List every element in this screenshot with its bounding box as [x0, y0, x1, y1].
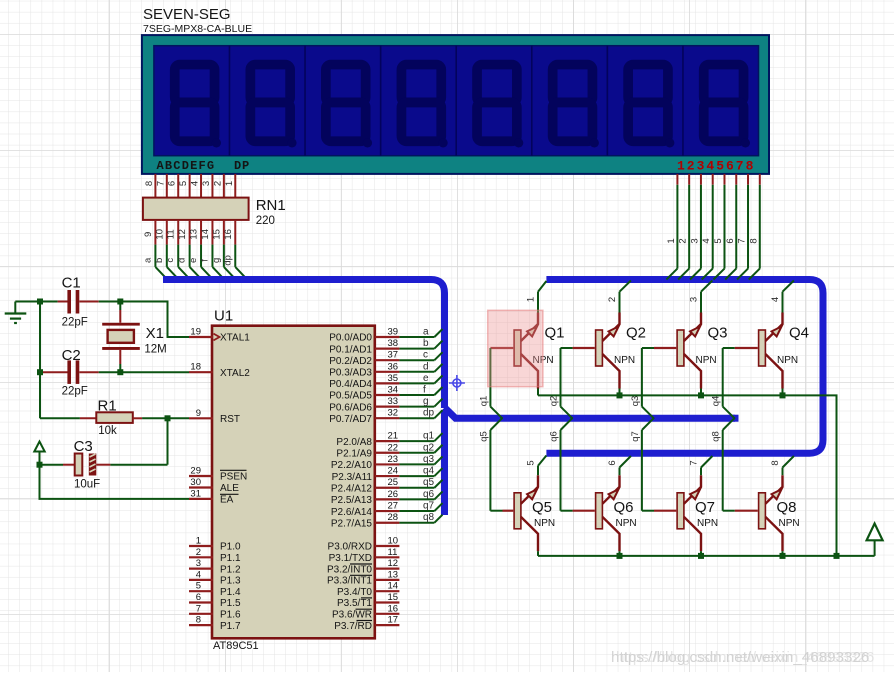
display digit pin 2 wire to digit bus — [678, 174, 690, 280]
U1 pin 31 EA — [189, 488, 234, 505]
svg-text:P1.6: P1.6 — [220, 610, 241, 621]
display cell separator 7 — [682, 46, 684, 156]
svg-text:P1.4: P1.4 — [220, 587, 241, 598]
power arrow at C3 — [34, 442, 44, 465]
svg-text:19: 19 — [190, 327, 201, 338]
display digit 8 — [704, 65, 750, 148]
U1 pin 9 RST — [189, 408, 240, 425]
svg-text:P0.7/AD7: P0.7/AD7 — [329, 414, 372, 425]
display digit pin 3 wire to digit bus — [689, 174, 701, 280]
svg-text:Q3: Q3 — [708, 325, 728, 342]
junction rail1 Q4 emitter — [780, 392, 786, 398]
RN1 pin 14 wire to segment bus — [199, 220, 223, 279]
U1 pin 14 P3.4/T0 — [337, 581, 399, 598]
svg-text:P2.6/A14: P2.6/A14 — [331, 507, 373, 518]
svg-text:9: 9 — [196, 408, 201, 419]
svg-text:P2.0/A8: P2.0/A8 — [336, 437, 372, 448]
U1 pin 25 P2.4/A12 wire to bus, net q5 — [331, 477, 443, 494]
svg-text:21: 21 — [388, 431, 399, 442]
wire C2 to XTAL2 — [99, 371, 189, 373]
svg-text:Q8: Q8 — [777, 499, 797, 516]
svg-text:2: 2 — [678, 238, 689, 243]
ground symbol — [5, 302, 27, 324]
wire q1 to Q1 base — [490, 347, 513, 349]
display digit 6 — [553, 65, 599, 148]
svg-text:37: 37 — [388, 350, 399, 361]
svg-text:12M: 12M — [144, 344, 166, 356]
display segment pin 8 — [144, 174, 156, 198]
svg-text:Q1: Q1 — [545, 325, 565, 342]
U1 pin 32 P0.7/AD7 wire to bus, net dp — [329, 408, 442, 425]
U1 pin 33 P0.6/AD6 wire to bus, net g — [329, 396, 442, 413]
ALE underline — [220, 493, 239, 495]
svg-text:P3.0/RXD: P3.0/RXD — [328, 542, 372, 553]
display digit 1 — [175, 65, 221, 148]
U1 pin 6 P1.5 — [189, 592, 241, 609]
transistor Q8 — [759, 475, 783, 551]
svg-text:SEVEN-SEG: SEVEN-SEG — [143, 6, 231, 23]
svg-text:C1: C1 — [62, 275, 81, 292]
svg-text:XTAL1: XTAL1 — [220, 333, 250, 344]
display cell separator 1 — [228, 46, 230, 156]
wire Q5 emitter to rail2 — [537, 551, 539, 556]
svg-text:NPN: NPN — [616, 518, 637, 529]
svg-text:NPN: NPN — [534, 518, 555, 529]
svg-text:29: 29 — [190, 466, 201, 477]
svg-text:P0.1/AD1: P0.1/AD1 — [329, 344, 372, 355]
svg-text:3: 3 — [689, 238, 700, 243]
U1 pin 27 P2.6/A14 wire to bus, net q7 — [331, 501, 443, 518]
svg-text:4: 4 — [701, 238, 712, 243]
svg-text:AT89C51: AT89C51 — [213, 640, 259, 652]
svg-text:36: 36 — [388, 361, 399, 372]
U1 pin 7 P1.6 — [189, 603, 241, 620]
svg-text:q3: q3 — [423, 454, 435, 465]
svg-text:DP: DP — [234, 159, 250, 173]
display cell separator 6 — [606, 46, 608, 156]
U1 pin 3 P1.2 — [189, 558, 241, 575]
svg-text:a: a — [423, 327, 429, 338]
junction rail2 Q7 emitter — [698, 553, 704, 559]
svg-text:18: 18 — [190, 362, 201, 373]
svg-text:q7: q7 — [630, 431, 641, 442]
digit select bus — [546, 280, 823, 454]
wire Q4 emitter to rail — [782, 389, 784, 396]
display digit 7 — [628, 65, 674, 148]
U1 pin 8 P1.7 — [189, 615, 241, 632]
U1 pin 26 P2.5/A13 wire to bus, net q6 — [331, 489, 443, 506]
seven segment display 7SEG-MPX8-CA-BLUE body — [142, 35, 769, 174]
U1 pin 10 P3.0/RXD — [328, 536, 400, 553]
svg-text:b: b — [423, 338, 429, 349]
svg-text:5: 5 — [526, 460, 537, 465]
U1 pin 28 P2.7/A15 wire to bus, net q8 — [331, 512, 443, 529]
svg-text:4: 4 — [196, 569, 201, 580]
svg-text:7SEG-MPX8-CA-BLUE: 7SEG-MPX8-CA-BLUE — [143, 23, 252, 35]
wire q7 from q bus down to Q7 base — [642, 418, 676, 511]
transistor Q2 — [596, 313, 620, 389]
svg-text:P0.3/AD3: P0.3/AD3 — [329, 368, 372, 379]
svg-text:q2: q2 — [549, 396, 560, 407]
svg-text:1: 1 — [224, 181, 235, 186]
svg-text:10k: 10k — [98, 425, 117, 437]
svg-text:11: 11 — [166, 229, 177, 239]
svg-text:b: b — [154, 258, 165, 263]
PSEN overline — [220, 469, 247, 471]
svg-text:1: 1 — [526, 297, 537, 302]
resistor network RN1 body — [143, 198, 249, 220]
wire Q3 collector to digit bus tap 3 — [701, 281, 712, 313]
svg-text:NPN: NPN — [779, 518, 800, 529]
svg-text:d: d — [423, 361, 429, 372]
svg-text:q2: q2 — [423, 442, 435, 453]
svg-text:4: 4 — [770, 297, 781, 302]
wire ground to C1 — [15, 301, 57, 303]
emitter rail Q5-Q8 to power — [538, 555, 875, 557]
svg-text:34: 34 — [388, 385, 399, 396]
wire q6 from q bus down to Q6 base — [561, 418, 595, 511]
svg-text:6: 6 — [607, 460, 618, 465]
U1 pin 15 P3.5/T1 — [337, 592, 399, 609]
svg-text:q7: q7 — [423, 501, 435, 512]
wire Q5 collector to digit bus tap 5 — [538, 456, 546, 476]
svg-text:7: 7 — [737, 238, 748, 243]
svg-text:P2.7/A15: P2.7/A15 — [331, 518, 373, 529]
transistor Q1 — [514, 313, 538, 389]
U1 pin 21 P2.0/A8 wire to bus, net q1 — [336, 431, 442, 448]
svg-text:15: 15 — [211, 229, 222, 240]
svg-text:NPN: NPN — [697, 518, 718, 529]
svg-text:dp: dp — [222, 255, 233, 266]
svg-text:5: 5 — [178, 181, 189, 186]
svg-text:2: 2 — [196, 547, 201, 558]
svg-text:3: 3 — [689, 297, 700, 302]
svg-text:4: 4 — [190, 181, 201, 186]
svg-text:NPN: NPN — [614, 355, 635, 366]
svg-text:10: 10 — [388, 536, 399, 547]
svg-text:13: 13 — [388, 569, 399, 580]
display segment letters ABCDEFG DP — [157, 159, 251, 173]
wire rail to R1 — [40, 417, 80, 419]
q bus end dot — [732, 415, 739, 422]
U1 pin 34 P0.5/AD5 wire to bus, net f — [329, 385, 442, 402]
svg-text:17: 17 — [388, 615, 399, 626]
U1 pin 1 P1.0 — [189, 536, 241, 553]
svg-text:9: 9 — [143, 232, 154, 237]
wire Q2 collector to digit bus tap 2 — [620, 281, 631, 313]
svg-text:22pF: 22pF — [62, 386, 88, 398]
U1 pin 24 P2.3/A11 wire to bus, net q4 — [332, 466, 443, 483]
svg-text:EA: EA — [220, 495, 234, 506]
svg-text:P1.7: P1.7 — [220, 621, 241, 632]
RN1 pin 13 wire to segment bus — [188, 220, 212, 279]
junction C3 left — [37, 462, 43, 468]
transistor Q3 — [677, 313, 701, 389]
svg-text:PSEN: PSEN — [220, 472, 247, 483]
junction X1 bottom — [117, 369, 123, 375]
svg-text:25: 25 — [388, 477, 399, 488]
svg-text:27: 27 — [388, 501, 399, 512]
wire q2 to Q2 base — [561, 347, 595, 349]
svg-text:5: 5 — [196, 581, 201, 592]
svg-text:5: 5 — [713, 238, 724, 243]
junction rail1-rail2 — [834, 553, 840, 559]
wire Q8 collector to digit bus tap 8 — [783, 456, 794, 475]
display digit 3 — [326, 65, 372, 148]
svg-text:NPN: NPN — [777, 355, 798, 366]
U1 pin 19 XTAL1 — [189, 327, 250, 344]
svg-text:P1.0: P1.0 — [220, 542, 241, 553]
svg-text:P3.5/T1: P3.5/T1 — [337, 598, 372, 609]
svg-text:R1: R1 — [98, 398, 117, 415]
display digit pin 8 wire to digit bus — [748, 174, 760, 280]
svg-text:38: 38 — [388, 338, 399, 349]
display digit pin 7 wire to digit bus — [737, 174, 749, 280]
svg-text:Q2: Q2 — [626, 325, 646, 342]
svg-text:ALE: ALE — [220, 483, 239, 494]
wire q4 to Q4 base — [723, 347, 758, 349]
svg-text:q4: q4 — [711, 396, 722, 407]
wire Q3 emitter to rail — [700, 389, 702, 396]
svg-text:XTAL2: XTAL2 — [220, 368, 250, 379]
svg-text:39: 39 — [388, 327, 399, 338]
svg-text:q5: q5 — [478, 431, 489, 442]
XTAL1 pin clock arrow — [214, 334, 220, 341]
U1 pin 18 XTAL2 — [189, 362, 250, 379]
svg-text:14: 14 — [388, 581, 399, 592]
svg-text:1: 1 — [666, 238, 677, 243]
wire q3 to Q3 base — [642, 347, 676, 349]
svg-text:P2.2/A10: P2.2/A10 — [331, 460, 373, 471]
RN1 pin 16 wire to segment bus — [222, 220, 246, 279]
svg-text:28: 28 — [388, 512, 399, 523]
wire C3 left down to EA row — [40, 465, 190, 499]
svg-text:8: 8 — [770, 460, 781, 465]
svg-text:8: 8 — [144, 181, 155, 186]
svg-text:q8: q8 — [423, 512, 435, 523]
wire net q4 tap to q bus — [723, 348, 735, 419]
svg-text:f: f — [423, 385, 426, 396]
display digit pin 5 wire to digit bus — [713, 174, 725, 280]
svg-text:P2.3/A11: P2.3/A11 — [332, 472, 373, 483]
U1 pin 23 P2.2/A10 wire to bus, net q3 — [331, 454, 443, 471]
svg-text:P0.5/AD5: P0.5/AD5 — [329, 391, 372, 402]
svg-text:P3.7/RD: P3.7/RD — [334, 621, 372, 632]
RN1 pin 9 wire to segment bus — [142, 220, 166, 279]
svg-text:C2: C2 — [62, 347, 81, 364]
wire Q7 collector to digit bus tap 7 — [701, 456, 712, 475]
transistor Q7 — [677, 475, 701, 551]
display segment pin 2 — [212, 174, 224, 198]
svg-text:q5: q5 — [423, 477, 435, 488]
svg-text:f: f — [199, 259, 210, 262]
wire net q2 tap to q bus — [561, 348, 573, 419]
U1 pin 37 P0.2/AD2 wire to bus, net c — [329, 350, 442, 367]
microcontroller U1 AT89C51 body — [212, 326, 375, 639]
svg-text:g: g — [423, 396, 429, 407]
U1 pin 35 P0.4/AD4 wire to bus, net e — [329, 373, 442, 390]
wire RST junction down to C3 — [167, 418, 169, 464]
svg-text:220: 220 — [256, 215, 275, 227]
wire Q7 emitter to rail2 — [700, 551, 702, 556]
svg-text:q6: q6 — [423, 489, 435, 500]
wire Q6 collector to digit bus tap 6 — [620, 456, 631, 475]
U1 pin 17 P3.7/RD — [334, 615, 399, 632]
RN1 pin 11 wire to segment bus — [165, 220, 189, 279]
svg-text:c: c — [165, 258, 176, 263]
svg-text:P0.6/AD6: P0.6/AD6 — [329, 402, 372, 413]
svg-text:6: 6 — [167, 181, 178, 186]
svg-text:dp: dp — [423, 408, 435, 419]
svg-text:8: 8 — [748, 238, 759, 243]
svg-text:RST: RST — [220, 414, 240, 425]
svg-text:NPN: NPN — [696, 355, 717, 366]
svg-text:1: 1 — [196, 536, 201, 547]
display digit pin 4 wire to digit bus — [701, 174, 713, 280]
svg-text:q6: q6 — [549, 431, 560, 442]
svg-text:e: e — [188, 258, 199, 263]
svg-text:q4: q4 — [423, 466, 435, 477]
junction rail2 Q8 emitter — [780, 553, 786, 559]
svg-text:6: 6 — [196, 592, 201, 603]
svg-text:31: 31 — [190, 488, 201, 499]
svg-text:12: 12 — [177, 229, 188, 240]
svg-text:P3.6/WR: P3.6/WR — [332, 610, 372, 621]
U1 pin 5 P1.4 — [189, 581, 241, 598]
junction rail1 Q3 emitter — [698, 392, 704, 398]
wire left rail vertical — [39, 302, 41, 419]
U1 pin 36 P0.3/AD3 wire to bus, net d — [329, 361, 442, 378]
resistor R1 — [80, 412, 142, 423]
svg-text:q3: q3 — [630, 396, 641, 407]
svg-text:c: c — [423, 350, 428, 361]
svg-text:15: 15 — [388, 592, 399, 603]
svg-text:10uF: 10uF — [74, 479, 100, 491]
svg-text:16: 16 — [388, 603, 399, 614]
selection highlight on Q1 — [488, 310, 543, 386]
junction C1/ground rail — [37, 299, 43, 305]
svg-text:Q6: Q6 — [614, 499, 634, 516]
svg-text:22: 22 — [388, 442, 399, 453]
emitter rail Q1-Q4 — [538, 395, 837, 556]
svg-text:6: 6 — [725, 238, 736, 243]
U1 pin 11 P3.1/TXD — [329, 547, 400, 564]
U1 pin 22 P2.1/A9 wire to bus, net q2 — [336, 442, 442, 459]
power arrow VCC — [867, 524, 883, 556]
svg-text:23: 23 — [388, 454, 399, 465]
U1 pin 38 P0.1/AD1 wire to bus, net b — [329, 338, 442, 355]
svg-text:14: 14 — [200, 229, 211, 240]
display segment pin 3 — [201, 174, 213, 198]
svg-text:P3.2/INT0: P3.2/INT0 — [327, 564, 372, 575]
svg-text:3: 3 — [196, 558, 201, 569]
overline INT1 — [350, 574, 372, 576]
svg-text:U1: U1 — [214, 308, 233, 325]
wire Q8 emitter to rail2 — [782, 551, 784, 556]
display segment pin 5 — [178, 174, 190, 198]
svg-text:X1: X1 — [146, 325, 164, 342]
display segment pin 4 — [190, 174, 202, 198]
svg-text:P0.2/AD2: P0.2/AD2 — [329, 356, 372, 367]
display digit numbers 12345678 — [677, 159, 755, 174]
display segment pin 7 — [155, 174, 167, 198]
svg-text:26: 26 — [388, 489, 399, 500]
display cell separator 5 — [531, 46, 533, 156]
svg-text:12: 12 — [388, 558, 399, 569]
U1 pin 2 P1.1 — [189, 547, 241, 564]
display segment pin 6 — [167, 174, 179, 198]
wire Q6 emitter to rail2 — [619, 551, 621, 556]
svg-text:2: 2 — [607, 297, 618, 302]
capacitor C1 — [58, 290, 99, 314]
svg-text:q8: q8 — [711, 431, 722, 442]
svg-text:P1.5: P1.5 — [220, 598, 241, 609]
wire Q1 collector to digit bus tap 1 — [538, 281, 546, 313]
segment bus from RN1 to U1 (a..dp, q1..q8) — [163, 280, 445, 409]
svg-text:7: 7 — [196, 603, 201, 614]
svg-text:P3.3/INT1: P3.3/INT1 — [327, 576, 372, 587]
overline RD — [357, 620, 373, 622]
svg-text:P1.1: P1.1 — [220, 553, 241, 564]
svg-text:Q4: Q4 — [789, 325, 809, 342]
svg-text:22pF: 22pF — [62, 317, 88, 329]
svg-text:ABCDEFG: ABCDEFG — [157, 159, 216, 173]
svg-text:P3.1/TXD: P3.1/TXD — [329, 553, 372, 564]
svg-text:q1: q1 — [478, 396, 489, 407]
svg-text:12345678: 12345678 — [677, 159, 755, 174]
junction rail1 Q2 emitter — [617, 392, 623, 398]
svg-text:P0.4/AD4: P0.4/AD4 — [329, 379, 372, 390]
svg-text:P3.4/T0: P3.4/T0 — [337, 587, 372, 598]
capacitor C2 — [40, 360, 99, 384]
U1 pin 16 P3.6/WR — [332, 603, 399, 620]
svg-text:11: 11 — [388, 547, 398, 558]
svg-text:30: 30 — [190, 477, 201, 488]
svg-text:P2.5/A13: P2.5/A13 — [331, 495, 373, 506]
svg-text:7: 7 — [689, 460, 700, 465]
wire q5 from q bus down to Q5 base — [490, 418, 513, 511]
display cell separator 3 — [380, 46, 382, 156]
U1 pin 4 P1.3 — [189, 569, 241, 586]
wire q8 from q bus down to Q8 base — [723, 418, 758, 511]
svg-text:P0.0/AD0: P0.0/AD0 — [329, 333, 372, 344]
RN1 pin 12 wire to segment bus — [177, 220, 201, 279]
svg-text:7: 7 — [155, 181, 166, 186]
wire C1 to XTAL1 corner — [99, 302, 189, 338]
display cell separator 2 — [304, 46, 306, 156]
svg-text:3: 3 — [201, 181, 212, 186]
display digit 2 — [250, 65, 296, 148]
wire net q3 tap to q bus — [642, 348, 654, 419]
svg-text:C3: C3 — [74, 438, 93, 455]
transistor Q4 — [759, 313, 783, 389]
svg-text:13: 13 — [189, 229, 200, 240]
wire Q4 collector to digit bus tap 4 — [783, 281, 794, 313]
junction X1 top — [117, 299, 123, 305]
U1 pin 39 P0.0/AD0 wire to bus, net a — [329, 327, 442, 344]
RN1 pin 15 wire to segment bus — [211, 220, 235, 279]
wire C3 to RST vertical — [110, 464, 167, 466]
q bus horizontal middle branch — [445, 408, 736, 419]
svg-text:https://blog.csdn.net/weixin_4: https://blog.csdn.net/weixin_46893326 — [616, 649, 874, 666]
svg-text:2: 2 — [212, 181, 223, 186]
svg-text:24: 24 — [388, 466, 399, 477]
transistor Q6 — [596, 475, 620, 551]
display cell separator 4 — [455, 46, 457, 156]
display digit 4 — [401, 65, 447, 148]
segment bus vertical lower part — [441, 410, 448, 515]
svg-text:10: 10 — [154, 229, 165, 240]
